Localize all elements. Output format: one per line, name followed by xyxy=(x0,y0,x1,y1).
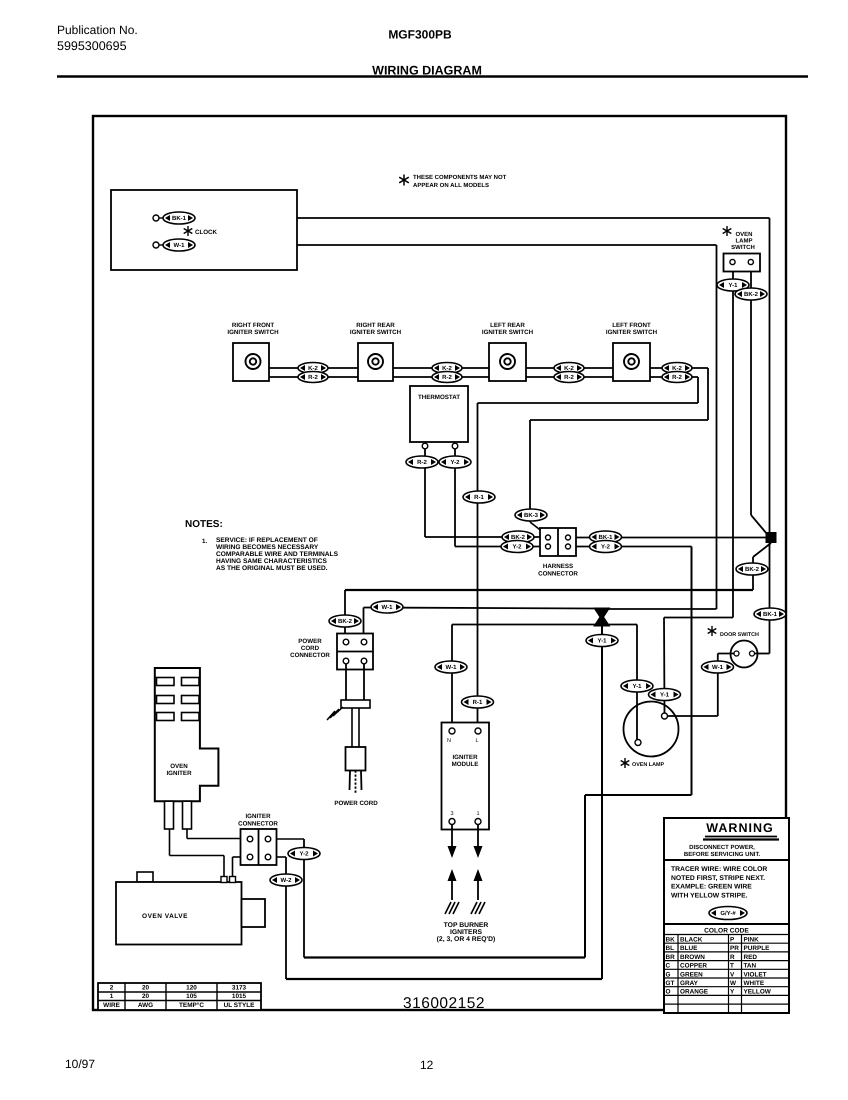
power cord connector box xyxy=(337,634,373,670)
svg-text:R-2: R-2 xyxy=(308,374,318,381)
igniter connector pin 4 xyxy=(265,854,271,860)
svg-text:Y-2: Y-2 xyxy=(299,851,309,858)
svg-text:LAMP: LAMP xyxy=(736,238,753,245)
connector oven lamp left xyxy=(621,680,653,692)
svg-text:NOTED FIRST, STRIPE NEXT.: NOTED FIRST, STRIPE NEXT. xyxy=(671,875,765,882)
tracer wire box xyxy=(664,860,789,924)
svg-text:BK-3: BK-3 xyxy=(524,512,539,519)
connector igniter module N xyxy=(435,661,467,673)
svg-text:RED: RED xyxy=(744,954,758,961)
svg-text:Y-1: Y-1 xyxy=(597,638,607,645)
svg-text:AWG: AWG xyxy=(138,1002,153,1009)
svg-text:WITH YELLOW STRIPE.: WITH YELLOW STRIPE. xyxy=(671,892,748,899)
connector oven lamp right xyxy=(649,689,681,701)
connector below junction xyxy=(736,563,768,575)
svg-text:TAN: TAN xyxy=(744,963,757,970)
connector igniter W-2 xyxy=(270,874,302,886)
svg-text:VIOLET: VIOLET xyxy=(744,971,767,978)
svg-text:R-1: R-1 xyxy=(473,699,483,706)
chassis ground hatch xyxy=(327,707,343,720)
svg-text:BL: BL xyxy=(666,945,675,952)
wire: neutral run bowtie to power cord xyxy=(364,608,597,609)
spark output arrow x=452 xyxy=(451,825,453,847)
inter-switch connector pair 1 xyxy=(298,363,328,374)
connector harness right bottom xyxy=(590,541,622,553)
svg-text:TOP BURNER: TOP BURNER xyxy=(444,922,489,929)
svg-text:W: W xyxy=(730,980,737,987)
svg-text:PURPLE: PURPLE xyxy=(744,945,771,952)
wire: thermostat left to harness xyxy=(424,448,426,537)
svg-text:W-1: W-1 xyxy=(174,242,186,249)
igniter connector pin 3 xyxy=(247,854,253,860)
svg-text:GRAY: GRAY xyxy=(680,980,699,987)
oven lamp terminal L xyxy=(635,740,641,746)
svg-text:OVEN: OVEN xyxy=(735,231,752,238)
igniter connector wires xyxy=(233,856,248,858)
wire: junction down to power cord hot (line A) xyxy=(753,543,771,557)
power cord cable xyxy=(351,708,353,747)
svg-text:PR: PR xyxy=(730,945,739,952)
connector hot to power cord xyxy=(329,615,361,627)
svg-text:WIRE: WIRE xyxy=(103,1002,120,1009)
connector above harness xyxy=(515,509,547,521)
harness pin 1 xyxy=(546,535,551,540)
oven lamp body xyxy=(624,702,679,757)
connector igniter module L xyxy=(462,696,494,708)
svg-text:BROWN: BROWN xyxy=(680,954,705,961)
connector on module L feed xyxy=(463,491,495,503)
connector lamp switch right xyxy=(735,288,767,300)
wire: clock BK-1 to right bus xyxy=(196,217,770,219)
wire: igniter switch bottom bus xyxy=(269,376,698,378)
svg-text:BK-2: BK-2 xyxy=(744,291,759,298)
oven valve terminal 2 xyxy=(230,877,236,883)
svg-text:1.: 1. xyxy=(202,538,207,545)
svg-text:5995300695: 5995300695 xyxy=(57,39,127,53)
connector below thermostat R xyxy=(439,456,471,468)
wire: door switch left to oven lamp xyxy=(718,653,735,655)
wire: bowtie bottom neutral to igniter connector xyxy=(601,625,603,979)
harness pin 3 xyxy=(546,544,551,549)
wire: BK-1 bus below junction to door switch xyxy=(769,543,771,654)
svg-text:CONNECTOR: CONNECTOR xyxy=(290,652,330,659)
svg-text:AS THE ORIGINAL MUST BE USED.: AS THE ORIGINAL MUST BE USED. xyxy=(216,565,328,572)
wire: harness pin4 long run to igniter connector xyxy=(570,546,692,548)
connector neutral to power cord xyxy=(371,601,403,613)
module pin 1 xyxy=(475,819,481,825)
power cord plug xyxy=(346,747,366,771)
svg-text:BK-1: BK-1 xyxy=(172,215,187,222)
plug prongs xyxy=(349,771,352,791)
bowtie splice xyxy=(595,609,609,626)
svg-text:COMPARABLE WIRE AND TERMINALS: COMPARABLE WIRE AND TERMINALS xyxy=(216,551,339,558)
svg-text:Y-2: Y-2 xyxy=(512,544,522,551)
svg-text:Y: Y xyxy=(730,989,735,996)
svg-text:316002152: 316002152 xyxy=(403,995,485,1012)
wire: bowtie to clock W-1 bus xyxy=(607,608,717,610)
connector harness left bottom xyxy=(501,541,533,553)
thermostat box xyxy=(410,386,468,442)
door switch terminal R xyxy=(750,651,755,656)
oven valve tab xyxy=(137,872,153,882)
clock box xyxy=(111,190,297,270)
module pin 3 xyxy=(449,819,455,825)
svg-text:HARNESS: HARNESS xyxy=(543,563,573,570)
main diagram border xyxy=(93,116,786,1010)
svg-text:Y-1: Y-1 xyxy=(728,282,738,289)
harness pin 4 xyxy=(566,544,571,549)
svg-text:POWER: POWER xyxy=(298,638,322,645)
svg-text:CORD: CORD xyxy=(301,645,320,652)
wire: bowtie lower-left to igniter module N xyxy=(452,624,596,626)
svg-text:G: G xyxy=(666,971,671,978)
svg-text:W-1: W-1 xyxy=(712,664,724,671)
spark output arrow x=478 xyxy=(477,825,479,847)
svg-text:BLUE: BLUE xyxy=(680,945,698,952)
connector door switch feed xyxy=(754,608,786,620)
svg-text:WARNING: WARNING xyxy=(706,821,773,835)
svg-text:IGNITERS: IGNITERS xyxy=(450,929,483,936)
color code table xyxy=(664,924,789,1013)
svg-text:BEFORE SERVICING UNIT.: BEFORE SERVICING UNIT. xyxy=(684,851,761,858)
harness pin 2 xyxy=(566,535,571,540)
svg-text:3173: 3173 xyxy=(232,985,247,992)
svg-text:20: 20 xyxy=(142,985,150,992)
svg-text:Y-1: Y-1 xyxy=(632,683,642,690)
connector BK-1 xyxy=(163,212,195,224)
clock asterisk xyxy=(184,226,193,236)
svg-text:N: N xyxy=(447,738,451,744)
svg-text:10/97: 10/97 xyxy=(65,1057,95,1071)
svg-text:COLOR CODE: COLOR CODE xyxy=(704,928,749,935)
wire: diagonal into harness pin 1 xyxy=(530,522,548,536)
svg-text:BLACK: BLACK xyxy=(680,937,703,944)
oven lamp asterisk xyxy=(621,758,630,768)
svg-text:SERVICE: IF REPLACEMENT OF: SERVICE: IF REPLACEMENT OF xyxy=(216,537,318,544)
oven lamp switch asterisk xyxy=(723,226,732,236)
oven igniter body xyxy=(155,668,219,801)
igniter module box xyxy=(442,723,490,830)
svg-text:V: V xyxy=(730,971,735,978)
svg-text:TEMP°C: TEMP°C xyxy=(179,1002,204,1009)
svg-text:ORANGE: ORANGE xyxy=(680,989,709,996)
svg-text:C: C xyxy=(666,963,671,970)
svg-text:IGNITER SWITCH: IGNITER SWITCH xyxy=(227,329,279,336)
svg-text:OVEN LAMP: OVEN LAMP xyxy=(632,762,664,768)
svg-text:NOTES:: NOTES: xyxy=(185,519,223,530)
svg-text:BR: BR xyxy=(666,954,676,961)
connector W-1 xyxy=(163,239,195,251)
connector harness left top xyxy=(502,531,534,543)
oven lamp terminal R xyxy=(662,713,668,719)
warning box top xyxy=(664,818,789,860)
svg-text:IGNITER SWITCH: IGNITER SWITCH xyxy=(482,329,534,336)
wire: igniter module L feed xyxy=(477,403,479,732)
thermostat terminal R xyxy=(452,443,458,449)
wire: clock W-1 to right bus xyxy=(196,244,717,246)
svg-text:2: 2 xyxy=(110,985,114,992)
svg-text:IGNITER: IGNITER xyxy=(245,813,271,820)
power cord strain relief xyxy=(341,700,370,708)
svg-text:LEFT FRONT: LEFT FRONT xyxy=(612,322,651,329)
svg-text:OVEN: OVEN xyxy=(170,763,188,770)
svg-text:PINK: PINK xyxy=(744,937,760,944)
tracer example connector xyxy=(709,907,747,920)
svg-text:OVEN VALVE: OVEN VALVE xyxy=(142,913,188,920)
wire: bowtie lower-right to oven lamp xyxy=(607,624,637,626)
svg-text:UL STYLE: UL STYLE xyxy=(224,1002,256,1009)
svg-text:GREEN: GREEN xyxy=(680,971,703,978)
lamp switch terminal 1 xyxy=(730,259,735,264)
wire: lamp switch left leg xyxy=(732,272,734,618)
svg-text:DOOR SWITCH: DOOR SWITCH xyxy=(720,632,759,638)
svg-text:IGNITER SWITCH: IGNITER SWITCH xyxy=(350,329,402,336)
svg-text:WHITE: WHITE xyxy=(744,980,765,987)
svg-text:COPPER: COPPER xyxy=(680,963,707,970)
connector bowtie bottom xyxy=(586,635,618,647)
svg-text:YELLOW: YELLOW xyxy=(744,989,772,996)
svg-text:BK-1: BK-1 xyxy=(763,611,778,618)
svg-text:WIRING BECOMES NECESSARY: WIRING BECOMES NECESSARY xyxy=(216,544,319,551)
header rule xyxy=(57,75,808,78)
inter-switch connector pair 4 xyxy=(662,363,692,374)
door switch terminal L xyxy=(734,651,739,656)
igniter lead 1 xyxy=(165,801,174,829)
note asterisk xyxy=(399,175,409,186)
svg-text:SWITCH: SWITCH xyxy=(731,244,755,251)
svg-text:1: 1 xyxy=(110,993,114,1000)
svg-text:P: P xyxy=(730,937,735,944)
svg-text:R-2: R-2 xyxy=(417,459,427,466)
svg-text:DISCONNECT POWER,: DISCONNECT POWER, xyxy=(689,844,755,851)
svg-text:W-1: W-1 xyxy=(382,604,394,611)
connector igniter Y-2 xyxy=(288,848,320,860)
power cord pin 3 xyxy=(343,658,349,664)
svg-text:120: 120 xyxy=(186,985,197,992)
svg-text:MGF300PB: MGF300PB xyxy=(388,28,452,42)
svg-text:R-2: R-2 xyxy=(564,374,574,381)
svg-text:LEFT REAR: LEFT REAR xyxy=(490,322,525,329)
svg-text:G/Y-#: G/Y-# xyxy=(720,910,736,917)
svg-text:BK-2: BK-2 xyxy=(338,618,353,625)
module pin L xyxy=(475,728,481,734)
igniter lead 2 xyxy=(183,801,192,829)
svg-text:20: 20 xyxy=(142,993,150,1000)
svg-text:Y-2: Y-2 xyxy=(601,544,611,551)
door switch body xyxy=(731,641,758,668)
svg-text:O: O xyxy=(666,989,671,996)
inter-switch connector pair 2 xyxy=(432,363,462,374)
svg-text:R-2: R-2 xyxy=(672,374,682,381)
svg-text:TRACER WIRE: WIRE COLOR: TRACER WIRE: WIRE COLOR xyxy=(671,866,767,873)
oven igniter grid xyxy=(157,678,175,686)
svg-text:3: 3 xyxy=(450,811,453,817)
svg-text:BK-2: BK-2 xyxy=(745,566,760,573)
svg-text:GT: GT xyxy=(666,980,675,987)
svg-text:1: 1 xyxy=(476,811,479,817)
svg-text:CONNECTOR: CONNECTOR xyxy=(538,571,578,578)
wire spec table xyxy=(98,983,261,1010)
svg-text:L: L xyxy=(475,738,478,744)
wire: harness pin2 to junction xyxy=(570,537,766,539)
svg-text:CONNECTOR: CONNECTOR xyxy=(238,821,278,828)
power cord pin 1 xyxy=(343,639,349,645)
wire: lamp switch right leg into junction xyxy=(750,272,752,516)
svg-text:W-2: W-2 xyxy=(281,877,293,884)
igniter leads xyxy=(169,829,171,856)
clock terminal 1 xyxy=(153,215,159,221)
igniter connector pin 2 xyxy=(265,836,271,842)
svg-text:IGNITER: IGNITER xyxy=(452,754,478,761)
svg-text:Y-2: Y-2 xyxy=(450,459,460,466)
part number xyxy=(400,994,490,1008)
svg-text:R-2: R-2 xyxy=(442,374,452,381)
svg-text:THERMOSTAT: THERMOSTAT xyxy=(418,394,460,401)
connector lamp switch left xyxy=(717,279,749,291)
inter-switch connector pair 3 xyxy=(554,363,584,374)
connector harness right top xyxy=(590,531,622,543)
svg-text:Publication No.: Publication No. xyxy=(57,23,138,37)
wire: igniter switch top bus xyxy=(269,367,708,369)
svg-text:T: T xyxy=(730,963,734,970)
svg-text:IGNITER SWITCH: IGNITER SWITCH xyxy=(606,329,658,336)
svg-text:BK: BK xyxy=(666,937,676,944)
svg-text:CLOCK: CLOCK xyxy=(195,229,218,236)
connector door switch left xyxy=(702,661,734,673)
burner igniter arrow x=478 xyxy=(474,869,483,881)
svg-text:W-1: W-1 xyxy=(446,664,458,671)
power cord pin 4 xyxy=(361,658,367,664)
igniter connector box xyxy=(241,829,277,865)
svg-text:RIGHT REAR: RIGHT REAR xyxy=(356,322,395,329)
svg-text:12: 12 xyxy=(420,1058,434,1072)
power cord leads xyxy=(345,664,347,700)
svg-text:(2, 3, OR 4 REQ'D): (2, 3, OR 4 REQ'D) xyxy=(437,936,496,943)
svg-text:EXAMPLE: GREEN WIRE: EXAMPLE: GREEN WIRE xyxy=(671,884,752,891)
oven lamp switch box xyxy=(724,254,761,272)
svg-text:105: 105 xyxy=(186,993,197,1000)
burner igniter arrow x=452 xyxy=(448,869,457,881)
svg-text:THESE COMPONENTS MAY NOT: THESE COMPONENTS MAY NOT xyxy=(413,174,507,181)
svg-text:Y-1: Y-1 xyxy=(660,692,670,699)
igniter connector pin 1 xyxy=(247,836,253,842)
oven valve box xyxy=(116,882,242,945)
connector below thermostat L xyxy=(406,456,438,468)
clock terminal 2 xyxy=(153,242,159,248)
svg-text:RIGHT FRONT: RIGHT FRONT xyxy=(232,322,274,329)
power cord pin 2 xyxy=(361,639,367,645)
svg-text:IGNITER: IGNITER xyxy=(166,770,192,777)
svg-text:R-1: R-1 xyxy=(474,494,484,501)
thermostat terminal L xyxy=(422,443,428,449)
module pin N xyxy=(449,728,455,734)
wire: thermostat right to harness xyxy=(454,448,456,547)
svg-text:1015: 1015 xyxy=(232,993,247,1000)
svg-text:MODULE: MODULE xyxy=(452,761,479,768)
svg-text:HAVING SAME CHARACTERISTICS: HAVING SAME CHARACTERISTICS xyxy=(216,558,327,565)
oven valve terminal 1 xyxy=(221,877,227,883)
oven valve side port xyxy=(242,899,266,927)
svg-text:R: R xyxy=(730,954,735,961)
junction block xyxy=(766,532,777,543)
svg-text:POWER CORD: POWER CORD xyxy=(334,800,378,807)
door switch asterisk xyxy=(708,626,717,636)
lamp switch terminal 2 xyxy=(748,259,753,264)
svg-text:APPEAR ON ALL MODELS: APPEAR ON ALL MODELS xyxy=(413,182,489,189)
harness connector box xyxy=(540,528,576,556)
